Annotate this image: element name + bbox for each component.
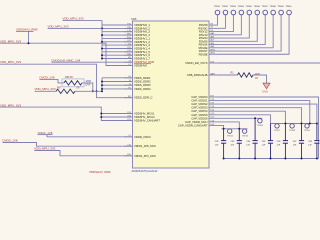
svg-text:AA4: AA4 (211, 32, 215, 35)
svg-text:TP209: TP209 (304, 130, 310, 132)
long wire to pin VDDSHV1_7 (0, 43, 133, 65)
svg-text:0R: 0R (77, 87, 80, 89)
svg-text:VDDSHV2_RMII: VDDSHV2_RMII (16, 28, 38, 32)
svg-text:TP213: TP213 (242, 135, 249, 137)
svg-text:CAP_VDDS6: CAP_VDDS6 (191, 116, 208, 120)
svg-text:VMON_1P8_SOC: VMON_1P8_SOC (134, 144, 156, 148)
svg-text:T6: T6 (211, 27, 213, 29)
svg-text:AM6254ATGGAALW: AM6254ATGGAALW (132, 169, 158, 173)
ground return rail under capacitor bank (223, 158, 319, 160)
IC right pin names column (178, 23, 208, 127)
wire USB_RXRCALIB to resistor R1 (217, 74, 238, 76)
svg-text:CAP_VDDR_MCU: CAP_VDDR_MCU (185, 120, 208, 124)
svg-text:VDDS_DDR4: VDDS_DDR4 (134, 87, 151, 91)
svg-text:C16: C16 (211, 120, 214, 122)
svg-text:CAP_VDDS2: CAP_VDDS2 (191, 102, 208, 106)
IC left pin stubs and pin numbers (124, 23, 133, 156)
svg-text:VMON_3P3_SOC: VMON_3P3_SOC (134, 154, 156, 158)
junction dot VDDSHV2_RMII tee (28, 42, 30, 44)
wire MCU rail to VDDSHV_MCU pins (0, 107, 133, 120)
wire to VMON_3P3_SOC pin (34, 151, 132, 156)
wire R1 to ground (253, 75, 267, 83)
svg-text:VDDR_OSC0: VDDR_OSC0 (134, 135, 151, 139)
svg-text:TP606: TP606 (254, 6, 261, 8)
test points TP207 TP208 TP209 circles and labels (274, 124, 310, 132)
svg-text:CAP_VDDR_CANUART: CAP_VDDR_CANUART (178, 123, 208, 127)
wire DVDD_1V8 label to resistor R96 (40, 79, 65, 83)
test point TP212 circle and label (227, 129, 234, 137)
svg-text:CAP_VDDS5: CAP_VDDS5 (191, 113, 208, 117)
svg-text:RSV0B: RSV0B (199, 52, 208, 56)
svg-text:AE8: AE8 (211, 45, 215, 48)
decoupling capacitors C92-C98 1uF (215, 118, 320, 158)
svg-text:TP607: TP607 (262, 6, 269, 8)
svg-text:TP610: TP610 (285, 6, 292, 8)
IC right pin stubs and pin numbers (209, 24, 217, 126)
svg-text:AB6: AB6 (211, 35, 215, 38)
left power bus vertical (VDD_MPU_3V3) with junctions (101, 20, 103, 58)
svg-text:AG11: AG11 (211, 52, 216, 55)
junction dots on left power bus (101, 27, 103, 59)
svg-text:R97: R97 (57, 87, 62, 89)
wire VDDA_1V8 to VDDR_OSC0 pin (38, 134, 53, 136)
wire label to resistor R97 (35, 90, 57, 92)
svg-text:CAP_VDDS0: CAP_VDDS0 (191, 95, 208, 99)
svg-text:C14: C14 (211, 106, 214, 108)
schematic background (0, 0, 320, 173)
VDDS_DDR bus vertical with junction dots (101, 78, 103, 92)
test points TP601-TP610 circles (215, 10, 291, 15)
svg-text:VDDSHV_MCU2: VDDSHV_MCU2 (134, 115, 155, 119)
wire DVDD_1V8 to VMON_1P8_SOC pin (3, 143, 133, 147)
svg-text:D15: D15 (211, 117, 214, 119)
svg-text:VMON_ER_VSYS: VMON_ER_VSYS (185, 61, 207, 65)
svg-text:DNP: DNP (86, 85, 91, 87)
svg-text:CAP_VDDS3: CAP_VDDS3 (191, 106, 208, 110)
svg-text:VDDSHV_CANUART: VDDSHV_CANUART (134, 119, 160, 123)
junction dot DDR feed (96, 90, 98, 92)
svg-text:VDDSHV1_7: VDDSHV1_7 (134, 57, 150, 61)
svg-text:D13: D13 (211, 103, 214, 105)
svg-text:AA16: AA16 (211, 72, 216, 75)
svg-text:CAP_VDDS4: CAP_VDDS4 (191, 109, 208, 113)
junction dot R96 output (92, 90, 94, 92)
svg-text:VDDSHV1_1: VDDSHV1_1 (134, 36, 150, 40)
svg-text:E10: E10 (211, 61, 214, 63)
svg-text:R96 96: R96 96 (65, 76, 73, 79)
nested wires from CAP pins to decoupling cap nodes (217, 97, 319, 159)
svg-text:TP206: TP206 (257, 125, 263, 127)
svg-text:VDDSHV1_5: VDDSHV1_5 (134, 50, 150, 54)
wire R96 output to DDR bus node (82, 83, 93, 91)
svg-text:TP212: TP212 (227, 135, 234, 137)
resistor R96 (DNP, boxed) with zigzag (62, 79, 84, 87)
svg-text:VDDS_DDR_C: VDDS_DDR_C (134, 96, 152, 100)
svg-text:VDDSHV6_1: VDDSHV6_1 (134, 23, 150, 27)
svg-text:VDDS_DDR2: VDDS_DDR2 (134, 80, 151, 84)
svg-text:TP605: TP605 (246, 6, 253, 8)
resistor R1 zigzag 4k99 (238, 73, 254, 77)
test point fanout wires from RSV pins (217, 15, 289, 54)
svg-text:D16: D16 (211, 124, 214, 126)
wire DVDD1V8_MMC_1V8 to reserved pin (52, 61, 133, 63)
svg-text:VDDS_DDR1: VDDS_DDR1 (134, 76, 151, 80)
wire from fourth label down right to VDDS_DDR_C pin (0, 64, 133, 98)
svg-text:VDDSHV0: VDDSHV0 (134, 64, 147, 68)
svg-text:TP208: TP208 (289, 130, 295, 132)
svg-text:TP602: TP602 (222, 6, 229, 8)
svg-text:TP609: TP609 (278, 6, 285, 8)
wire VDD_MPU_3V3 second label to bus (48, 27, 103, 29)
junction dots MCU bus (100, 113, 102, 115)
svg-text:VDDSHV1_3: VDDSHV1_3 (134, 43, 150, 47)
svg-text:VDDSHV6_3: VDDSHV6_3 (134, 30, 150, 34)
test point TP213 circle and label (242, 129, 249, 137)
test point labels TP601-TP610 (214, 6, 293, 8)
wire VMON_ER_VSYS to right edge (217, 62, 320, 64)
svg-text:R6: R6 (211, 24, 213, 26)
svg-text:AF10: AF10 (211, 48, 216, 51)
svg-text:U5: U5 (211, 30, 213, 32)
svg-text:TP207: TP207 (274, 130, 280, 132)
svg-text:AD9: AD9 (211, 42, 215, 45)
svg-text:VDD_MPU_3V3: VDD_MPU_3V3 (0, 60, 21, 64)
svg-text:AC7: AC7 (211, 39, 215, 42)
low cap node rail with junctions (222, 128, 248, 130)
svg-text:USB_RXRCALIB: USB_RXRCALIB (187, 73, 208, 77)
svg-text:GND: GND (262, 89, 268, 93)
op IC U1B body (AM625 SoC power pins) (133, 21, 210, 168)
wire from VDDSHV2_RMII label down to lower rail (16, 30, 34, 32)
junction dots on ground rail (223, 158, 318, 160)
svg-text:B17: B17 (211, 95, 214, 97)
cap3 node with junction and TP206 test point (254, 117, 263, 127)
svg-text:C13: C13 (211, 99, 214, 101)
svg-text:VDD_MPU_3V3: VDD_MPU_3V3 (35, 87, 56, 91)
svg-text:C15: C15 (211, 113, 214, 115)
svg-text:VDDSHV_MCU1: VDDSHV_MCU1 (134, 112, 155, 116)
svg-text:VDDS_DDR3: VDDS_DDR3 (134, 83, 151, 87)
svg-text:VDDSHV2_RMII: VDDSHV2_RMII (89, 170, 111, 173)
wire R97 output to VDDS_DDR bus (75, 90, 102, 92)
IC left pin names column (134, 23, 160, 158)
svg-text:TP608: TP608 (270, 6, 277, 8)
svg-text:TP604: TP604 (238, 6, 245, 8)
svg-text:VDD_MPU_3V3: VDD_MPU_3V3 (48, 24, 69, 28)
svg-text:TP601: TP601 (214, 6, 221, 8)
svg-text:D14: D14 (211, 110, 214, 112)
svg-text:CAP_VDDS1: CAP_VDDS1 (191, 99, 208, 103)
ground symbol GND (arrow) (263, 83, 270, 88)
wire from VDD_MPU_3V3 label to left pin bus (63, 19, 103, 21)
high cap node rail with junctions (271, 123, 318, 125)
resistor R97 zigzag (56, 89, 75, 93)
svg-text:U1B: U1B (131, 17, 137, 21)
svg-text:TP603: TP603 (230, 6, 237, 8)
